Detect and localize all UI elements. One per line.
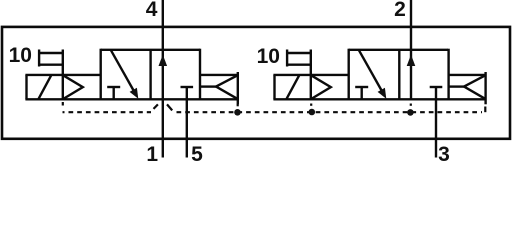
valve V1 up arrow head [159,55,168,66]
svg-text:1: 1 [146,143,158,164]
valve V2 up arrow head [407,55,416,66]
svg-text:10: 10 [257,45,280,68]
pilot port 10 ladder symbol (right) [286,50,312,100]
svg-text:3: 3 [438,143,450,164]
return air-spring symbol (right valve) [448,72,486,104]
wire: pilot dashed line left run [63,111,152,113]
return air-spring symbol (left valve) [200,72,238,104]
svg-text:5: 5 [191,143,203,164]
wire: pilot riser at solenoid U1 [62,102,64,106]
solenoid coil U1 (left pilot) [27,75,52,99]
valve V1 body [101,49,200,100]
outer enclosure frame [2,27,510,139]
junction dot C [407,109,414,116]
svg-text:2: 2 [394,0,406,21]
solenoid coil U2 (right pilot) [275,75,300,99]
valve V1 blocked port T2 / port 5 line [181,87,194,158]
wire: port 2 passage line [410,0,412,99]
wire: bottom rail (left assembly) [25,98,238,100]
wire: port 4 / port 1 passage line [162,0,164,158]
valve V2 left square flow arrow [359,50,387,99]
valve V2 body [349,49,449,100]
wire: pilot row top edge (right) [273,74,348,76]
wire: pilot tent left diagonal [154,104,158,109]
svg-text:4: 4 [146,0,158,21]
wire: pilot riser at valve V2 [410,104,412,106]
pilot port 10 ladder symbol (left) [38,50,64,100]
wire: pilot riser at solenoid U2 [310,104,312,106]
pilot triangle (left, air pilot) [63,75,83,99]
junction dot B [309,109,316,116]
wire: pilot riser at return 1 junction [237,104,239,106]
junction dot A [234,109,241,116]
valve V1 blocked port T1 [107,87,120,99]
wire: pilot riser at return 2 (line end) [484,107,486,113]
wire: bottom rail (right assembly) [273,98,485,100]
wire: pilot dashed line right run [177,111,483,113]
wire: pilot row top edge (left) [25,74,100,76]
valve V2 blocked port T4 / port 3 line [430,87,443,158]
wire: pilot tent right diagonal [167,104,172,110]
valve V1 left square flow arrow [111,50,139,99]
valve V2 blocked port T3 [355,87,368,99]
svg-text:10: 10 [9,44,32,67]
pilot triangle (right, air pilot) [311,75,331,99]
